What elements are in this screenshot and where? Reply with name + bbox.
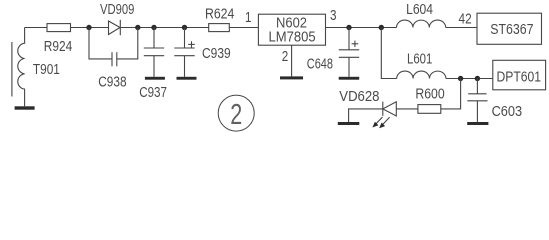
op-amp regulator N602 LM7805 box (258, 14, 325, 45)
capacitor C938 (89, 28, 138, 67)
ground (N602 pin 2) (280, 76, 303, 79)
plus polarity mark C648 (352, 41, 359, 47)
svg-text:C648: C648 (307, 56, 333, 72)
svg-text:C603: C603 (492, 104, 522, 120)
resistor R924 (47, 24, 71, 32)
IC U ST6367 box (477, 13, 542, 44)
svg-text:T901: T901 (33, 62, 60, 78)
wire R924 to VD909 anode (71, 27, 109, 29)
svg-text:R624: R624 (205, 6, 234, 22)
svg-text:1: 1 (245, 10, 252, 26)
wire VD628 cathode to ground (349, 109, 383, 122)
wire VD909 cathode to R624 (120, 27, 208, 29)
node junction at C603 (475, 76, 480, 81)
wire N602 pin 2 to ground (291, 45, 293, 76)
svg-text:C938: C938 (98, 75, 126, 91)
svg-text:3: 3 (330, 8, 337, 24)
wire R600 to VD628 (396, 108, 418, 110)
svg-text:R924: R924 (44, 39, 73, 55)
capacitor C603 (467, 79, 487, 123)
ground (C603) (467, 122, 488, 125)
svg-text:42: 42 (459, 12, 472, 28)
node junction at C648 (346, 25, 351, 30)
resistor R600 (418, 105, 441, 114)
ground (T901) (15, 106, 35, 109)
node junction at R600 branch (458, 76, 463, 81)
ground (C939) (177, 77, 197, 80)
svg-text:VD909: VD909 (100, 2, 134, 18)
wire rail down to L601 (381, 28, 396, 79)
ground (C648) (339, 77, 360, 80)
wire L601 to DPT601 (446, 78, 493, 80)
ground (VD628) (338, 122, 360, 125)
svg-text:C939: C939 (202, 46, 231, 62)
svg-text:C937: C937 (139, 85, 167, 101)
node junction at C938 left (86, 25, 91, 30)
svg-text:L604: L604 (406, 2, 433, 18)
IC DPT601 box (493, 60, 546, 90)
inductor L601 (397, 71, 446, 78)
svg-text:VD628: VD628 (339, 89, 379, 105)
svg-text:2: 2 (282, 49, 289, 65)
svg-text:DPT601: DPT601 (497, 69, 542, 85)
capacitor C648 (339, 28, 359, 77)
sheet number circle 2 (218, 95, 254, 131)
diode VD909 (109, 20, 121, 35)
wire T901 to R924 (25, 27, 47, 29)
svg-text:ST6367: ST6367 (490, 22, 533, 38)
LED VD628 (383, 102, 397, 116)
node junction at C938 right (135, 25, 140, 30)
svg-text:L601: L601 (407, 51, 432, 67)
transformer T901 core line (11, 42, 13, 97)
ground (C937) (145, 77, 165, 80)
wire N602 pin 3 to L604 (326, 27, 397, 29)
node junction at L601 branch (379, 25, 384, 30)
resistor R624 (209, 24, 230, 32)
wire R624 to N602 pin 1 (229, 27, 258, 29)
wire R600 branch down and left (441, 79, 461, 109)
inductor L604 (397, 20, 446, 27)
LED arrows (372, 117, 389, 128)
node junction at C937 (151, 25, 156, 30)
wire L604 to ST6367 pin 42 (446, 27, 477, 29)
plus polarity mark C939 (188, 41, 195, 47)
capacitor C939 (174, 28, 194, 77)
node junction at C939 (182, 25, 187, 30)
transformer T901 winding (18, 28, 25, 107)
capacitor C937 (144, 28, 164, 77)
svg-text:R600: R600 (415, 86, 444, 102)
svg-text:2: 2 (230, 99, 242, 131)
svg-text:LM7805: LM7805 (269, 29, 316, 45)
